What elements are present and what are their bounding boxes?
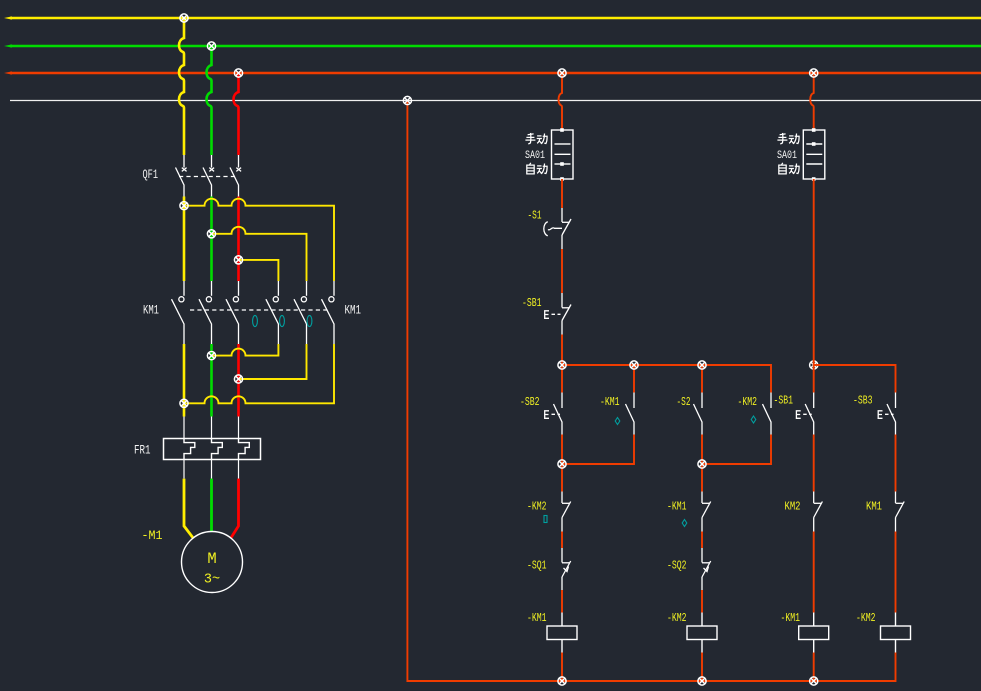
- wire S1 to SB1: [561, 249, 563, 293]
- svg-text:KM1: KM1: [866, 500, 882, 514]
- wire green drop L2 to QF1 with hops: [206, 46, 211, 155]
- svg-text:-SB2: -SB2: [520, 395, 540, 409]
- button SB1 right contact NO: [796, 393, 813, 435]
- contact KM2 NC col1: [562, 492, 571, 532]
- contact KM1 NC col2: [702, 492, 711, 532]
- svg-text:-KM1: -KM1: [600, 395, 620, 409]
- wire green KM1 to FR1: [210, 344, 213, 417]
- wire drop L3 to SA01 right with hop: [810, 73, 813, 130]
- wire yellow drop L1 to QF1 with hops: [179, 18, 184, 155]
- node rail col2: [698, 677, 706, 685]
- wire SQ2 to coil2: [701, 590, 703, 613]
- wire SQ1 to coil1: [561, 590, 563, 613]
- wire right rail SA01 to mesh: [813, 179, 815, 393]
- coil KM1 col3: [799, 613, 829, 653]
- node return green: [207, 352, 215, 360]
- node L3 tap: [234, 69, 242, 77]
- selector SA01 right label manual: [777, 133, 787, 144]
- node L2 tap: [207, 42, 215, 50]
- wire green QF1 to KM1: [210, 197, 213, 282]
- svg-text:M: M: [207, 550, 216, 568]
- switch S2 contact NO: [694, 393, 703, 435]
- node rail col3: [810, 677, 818, 685]
- node rail col1: [558, 677, 566, 685]
- diamond KM1 aux: [615, 418, 620, 425]
- contact KM1 NC col4: [896, 492, 905, 532]
- wire KM1 aux loop bottom: [562, 435, 634, 465]
- contactor KM1 pole 1: [172, 281, 185, 344]
- node return yellow: [180, 399, 188, 407]
- coil KM1 col1: [547, 613, 577, 653]
- node mesh S2: [698, 361, 706, 369]
- svg-text:-KM2: -KM2: [856, 611, 876, 625]
- selector SA01 left label manual: [525, 133, 535, 144]
- wire S2 down: [701, 435, 703, 492]
- node mesh right rail: [810, 361, 818, 369]
- limit switch SQ1 NC: [562, 548, 571, 590]
- wire white into FR1 col3: [238, 417, 240, 439]
- contactor KM1 pole 4: [266, 281, 279, 344]
- wire red KM1 to FR1: [237, 344, 240, 417]
- diamond col2: [682, 520, 687, 527]
- wire mesh col1 drop: [561, 365, 563, 393]
- svg-text:-KM2: -KM2: [667, 611, 687, 625]
- svg-text:-SB1: -SB1: [522, 296, 542, 310]
- button SB1 contact: [545, 293, 571, 335]
- button SB2 contact NO: [545, 393, 562, 435]
- bus L3 (red phase bus): [10, 72, 981, 75]
- wire SB1 to mesh node: [561, 335, 563, 366]
- node branch yellow: [180, 202, 188, 210]
- svg-text:-SQ2: -SQ2: [667, 559, 687, 573]
- diamond KM2 aux: [751, 416, 756, 423]
- wire left control rail and bottom rail: [407, 101, 895, 682]
- wire return pole R3 to yellow node: [184, 344, 334, 403]
- svg-text:-KM1: -KM1: [527, 611, 547, 625]
- wire branch yellow node L1a to pole R3: [184, 199, 334, 281]
- bus N (white neutral bus): [10, 100, 981, 102]
- svg-text:KM1: KM1: [345, 303, 362, 318]
- selector SA01 right label auto: [779, 163, 786, 174]
- svg-text:-KM1: -KM1: [667, 500, 687, 514]
- svg-text:-KM2: -KM2: [738, 395, 758, 409]
- teal mark col1: [544, 516, 547, 523]
- svg-text:-S1: -S1: [528, 209, 542, 223]
- svg-text:QF1: QF1: [143, 167, 159, 182]
- svg-text:-KM2: -KM2: [527, 500, 547, 514]
- svg-text:KM1: KM1: [143, 303, 159, 318]
- svg-text:FR1: FR1: [134, 443, 151, 458]
- bus L2 (green phase bus): [10, 45, 981, 48]
- wire mesh to SB3 branch: [814, 365, 896, 393]
- limit switch SQ2 NC: [702, 548, 711, 590]
- selector switch SA01 right box: [803, 130, 825, 179]
- arc chute lens 3: [307, 315, 312, 326]
- contact KM2 aux NO: [763, 393, 772, 435]
- wire drop L3 to SA01 left with hop: [559, 73, 562, 130]
- contactor KM1 pole 5: [294, 281, 307, 344]
- coil KM2 col4: [881, 613, 911, 653]
- wire SB1r down: [813, 435, 815, 492]
- contactor KM1 linkage dashed: [190, 309, 328, 311]
- wire green to motor: [210, 479, 213, 532]
- switch S1 contact: [544, 208, 571, 249]
- selector SA01 left dots: [560, 128, 564, 181]
- wire branch red node to pole R1: [239, 260, 279, 281]
- wire coil2 to rail: [701, 653, 703, 682]
- svg-text:-M1: -M1: [142, 528, 163, 543]
- breaker QF1 linkage dashed: [179, 176, 238, 178]
- wire return pole R1 to green node: [212, 344, 279, 356]
- contactor KM1 pole 2: [199, 281, 212, 344]
- svg-text:3~: 3~: [204, 573, 220, 588]
- breaker QF1 pole 3: [230, 155, 241, 197]
- breaker QF1 pole 2: [203, 155, 214, 197]
- heater element col1: [184, 439, 195, 460]
- wire red to motor: [231, 479, 239, 539]
- heater element col3: [239, 439, 250, 460]
- wire white into FR1 col1: [183, 417, 185, 439]
- wire mesh KM1aux drop: [633, 365, 635, 393]
- node return red: [234, 375, 242, 383]
- contact KM2 NC col3: [814, 492, 823, 532]
- wire red QF1 to KM1: [237, 197, 240, 282]
- wire white below FR1 col2: [211, 460, 213, 479]
- wire yellow to motor: [184, 479, 193, 539]
- node L3 tap control right: [810, 69, 818, 77]
- coil KM2 col2: [687, 613, 717, 653]
- wire col4 to coil: [895, 532, 897, 613]
- wire col2 to SQ2: [701, 532, 703, 549]
- svg-text:-SB3: -SB3: [853, 394, 873, 408]
- svg-text:-SB1: -SB1: [774, 394, 794, 408]
- breaker QF1 pole 1: [176, 155, 187, 197]
- wire white into FR1 col2: [211, 417, 213, 439]
- heater element col2: [212, 439, 223, 460]
- node loop1: [558, 460, 566, 468]
- wire yellow KM1 to FR1: [183, 344, 186, 417]
- selector switch SA01 left box: [552, 130, 574, 179]
- wire red drop L3 to QF1 with hop: [233, 73, 238, 155]
- wire col1 to SQ1: [561, 532, 563, 549]
- contactor KM1 pole 6: [322, 281, 335, 344]
- node N rail tap: [403, 96, 411, 104]
- contactor KM1 pole 3: [226, 281, 239, 344]
- svg-text:SA01: SA01: [777, 150, 797, 162]
- wire col3 to coil: [813, 532, 815, 613]
- wire coil3 to rail: [813, 653, 815, 682]
- svg-text:-SQ1: -SQ1: [527, 559, 547, 573]
- selector SA01 right dots: [812, 128, 816, 181]
- node mesh KM1aux: [630, 361, 638, 369]
- wire coil1 to rail: [561, 653, 563, 682]
- svg-text:SA01: SA01: [525, 150, 545, 162]
- wire mesh S2 drop: [701, 365, 703, 393]
- node branch green: [207, 230, 215, 238]
- motor M1 circle: [182, 532, 243, 593]
- wire white below FR1 col1: [183, 460, 185, 479]
- wire mesh top row: [562, 365, 771, 393]
- node loop2: [698, 460, 706, 468]
- selector SA01 left label auto: [527, 163, 534, 174]
- node branch red: [234, 256, 242, 264]
- contact KM1 aux NO: [626, 393, 635, 435]
- bus L1 (yellow phase bus): [10, 17, 981, 20]
- wire yellow QF1 to KM1: [183, 197, 186, 282]
- wire KM2 aux loop bottom: [702, 435, 771, 465]
- wire return pole R2 to red node: [239, 344, 307, 379]
- node mesh col1: [558, 361, 566, 369]
- thermal overload FR1 box: [164, 439, 261, 460]
- node L1 tap: [180, 14, 188, 22]
- wire SA01 left to S1: [561, 179, 563, 208]
- arc chute lens 1: [253, 315, 258, 326]
- wire white below FR1 col3: [238, 460, 240, 479]
- node L3 tap control left: [558, 69, 566, 77]
- wire SB2 down: [561, 435, 563, 492]
- svg-text:-S2: -S2: [677, 395, 691, 409]
- wire SB3 down: [895, 435, 897, 492]
- wire branch green node to pole R2: [212, 227, 307, 281]
- button SB3 contact NO: [878, 393, 895, 435]
- arc chute lens 2: [280, 315, 285, 326]
- svg-text:KM2: KM2: [785, 500, 801, 514]
- svg-text:-KM1: -KM1: [781, 611, 801, 625]
